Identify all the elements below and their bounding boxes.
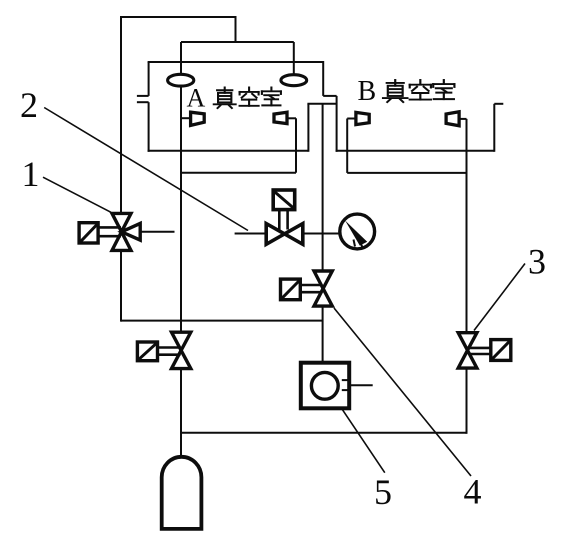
leader line 3	[474, 264, 525, 331]
transducer A right	[274, 112, 287, 123]
wire manifold horizontal	[181, 41, 294, 43]
svg-text:2: 2	[20, 85, 38, 125]
wire A left sensor stub	[181, 117, 190, 119]
wire chamber A loop	[181, 118, 296, 172]
wire right vertical lower	[466, 369, 468, 434]
wire top riser	[235, 16, 237, 43]
valve 3 with actuator	[458, 333, 511, 368]
valve 1 three-way	[79, 213, 140, 250]
leader line 4	[334, 308, 471, 476]
svg-text:3: 3	[528, 241, 546, 281]
svg-text:B: B	[358, 76, 377, 107]
wire A right sensor stub	[288, 117, 296, 119]
text B-row zhen	[383, 80, 454, 102]
wire top outer horizontal	[120, 16, 237, 18]
wire valve1 right stub	[142, 231, 175, 233]
chamber A walls	[137, 61, 337, 152]
valve 2 with actuator	[266, 190, 303, 244]
svg-text:A: A	[187, 84, 206, 113]
leader line 1	[43, 177, 111, 212]
wire mid long horizontal	[121, 320, 323, 322]
transducer B right	[446, 112, 459, 126]
leader line 5	[337, 401, 385, 473]
wire pump outlet stub	[351, 384, 373, 386]
transducer B left	[356, 112, 369, 124]
gas cylinder	[162, 457, 202, 529]
wire chamber B loop	[347, 119, 466, 173]
wire B right sensor stub	[460, 118, 467, 120]
transducer A left	[191, 112, 205, 125]
wire right vertical upper	[466, 119, 468, 332]
svg-text:4: 4	[464, 471, 482, 511]
ellipse sensor A2	[281, 75, 307, 86]
pump 5	[301, 363, 349, 409]
svg-text:1: 1	[22, 154, 40, 194]
wire valve2 gauge horizontal	[235, 233, 339, 235]
wire left outer vertical	[120, 16, 122, 322]
gauge G1	[340, 214, 375, 249]
node interchamber port	[307, 96, 337, 152]
wire main left vertical	[180, 42, 182, 458]
wire right ellipse drop	[293, 42, 295, 76]
valve 4 with actuator	[281, 271, 333, 306]
ellipse sensor A1	[168, 74, 194, 86]
wire bottom long horizontal	[181, 432, 467, 434]
svg-text:5: 5	[374, 472, 392, 512]
chamber B walls	[336, 104, 504, 152]
leader line 2	[44, 108, 248, 231]
wire B left sensor stub	[347, 118, 355, 120]
text A-row zhen	[214, 87, 281, 108]
wire center vertical lower	[322, 307, 324, 362]
valve 6 bottom-left	[137, 332, 190, 368]
wire center vertical upper	[322, 104, 324, 271]
